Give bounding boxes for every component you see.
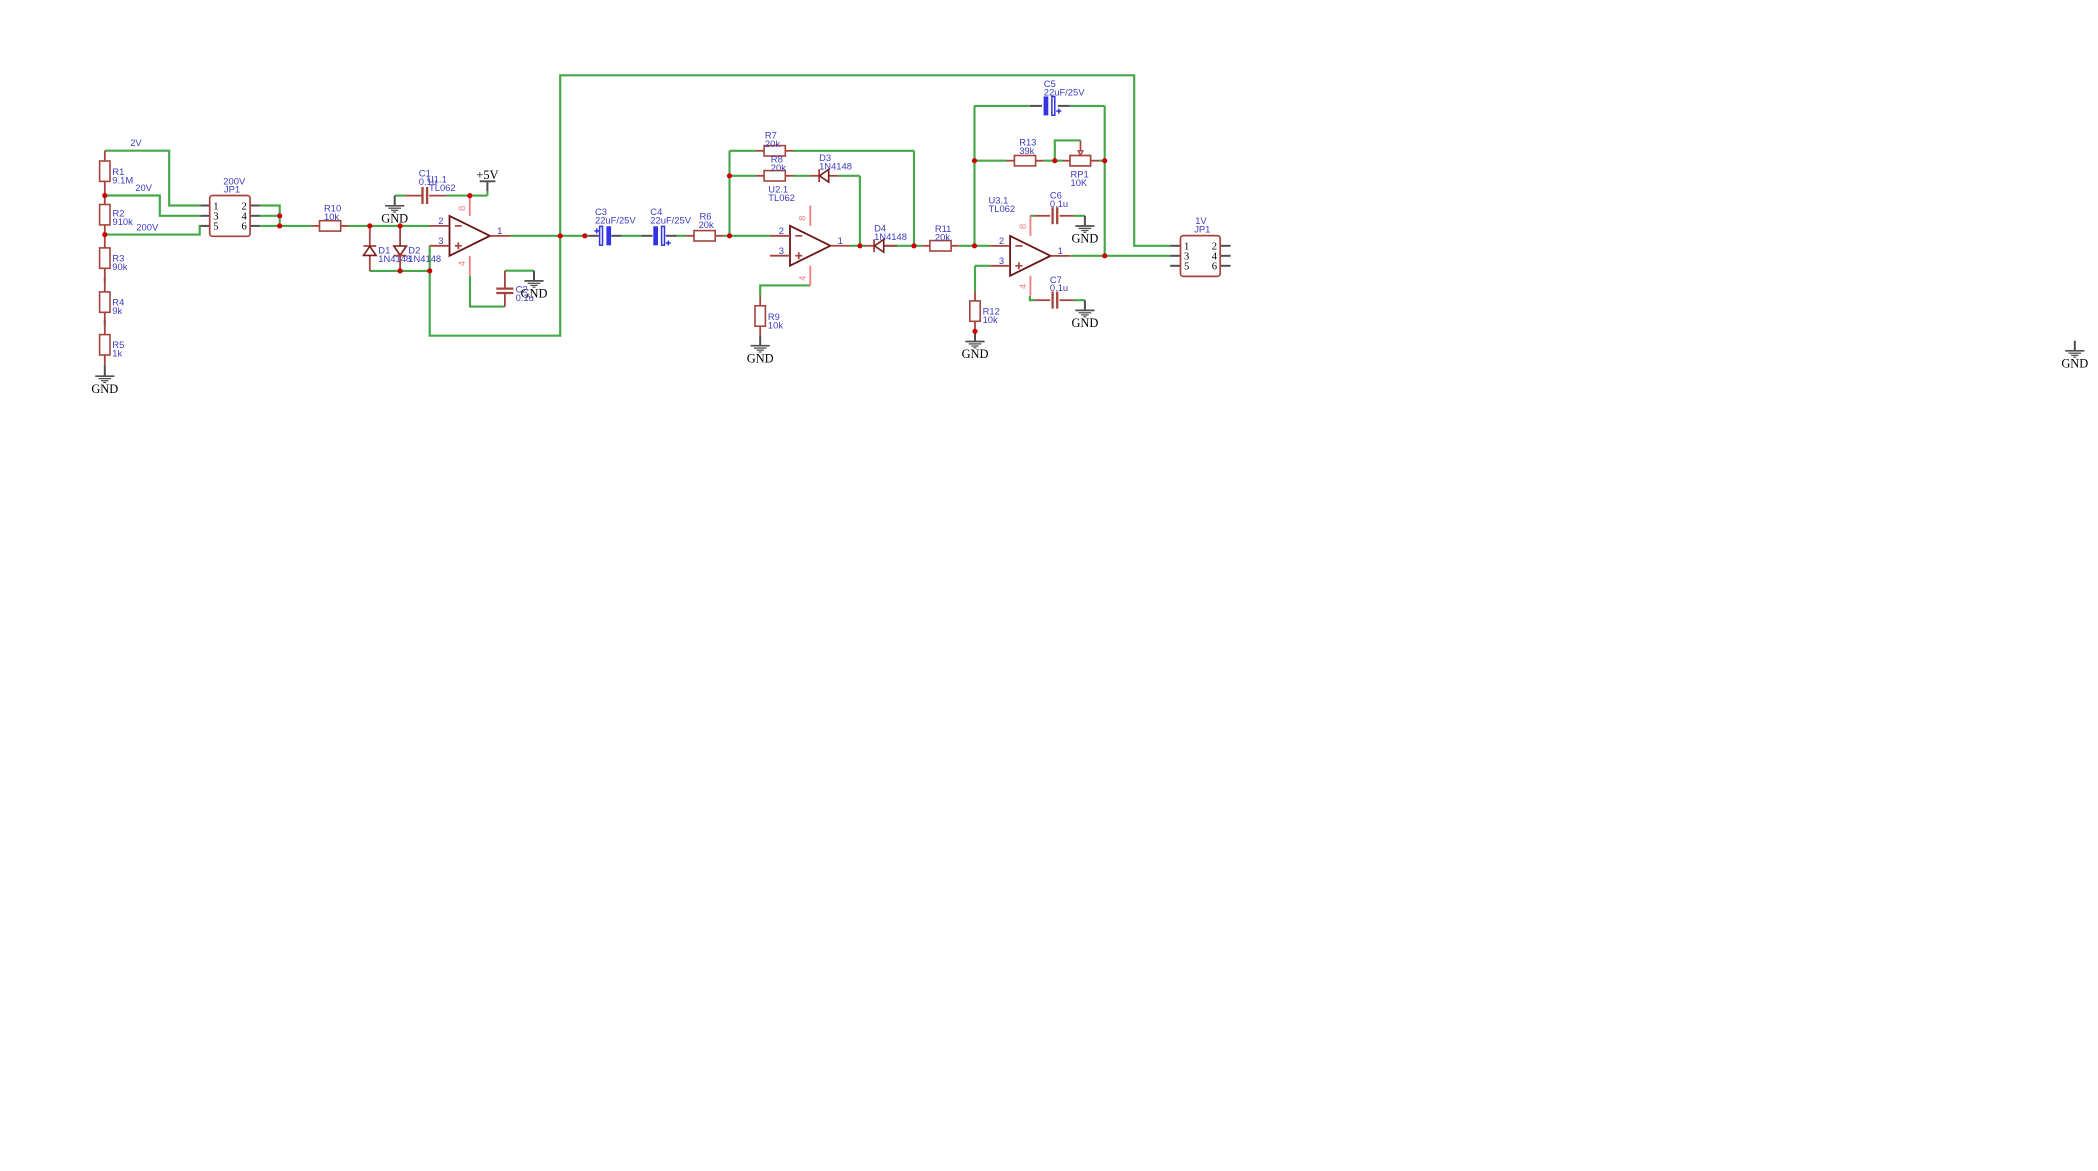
svg-text:200V: 200V [136,221,159,232]
svg-text:22uF/25V: 22uF/25V [1044,86,1085,97]
svg-text:GND: GND [381,212,408,226]
svg-text:GND: GND [962,347,989,361]
svg-text:0.1u: 0.1u [1050,198,1068,209]
svg-text:GND: GND [91,382,118,396]
svg-text:20V: 20V [135,182,152,193]
svg-text:9k: 9k [112,305,122,316]
svg-text:GND: GND [1071,316,1098,330]
svg-text:+5V: +5V [476,168,498,182]
svg-text:10k: 10k [324,211,339,222]
svg-text:1k: 1k [112,348,122,359]
svg-text:2: 2 [438,215,443,226]
svg-text:4: 4 [796,276,807,281]
svg-text:GND: GND [1071,232,1098,246]
svg-text:0.1u: 0.1u [1050,282,1068,293]
svg-text:TL062: TL062 [989,203,1016,214]
svg-text:2V: 2V [130,137,142,148]
svg-text:90k: 90k [112,261,127,272]
svg-text:0.1u: 0.1u [516,292,534,303]
svg-text:JP1: JP1 [1194,223,1210,234]
svg-text:20k: 20k [699,219,714,230]
svg-text:1: 1 [838,235,843,246]
svg-text:6: 6 [1212,261,1217,272]
svg-text:TL062: TL062 [768,192,795,203]
svg-text:3: 3 [999,255,1004,266]
svg-text:4: 4 [1017,284,1028,289]
svg-text:22uF/25V: 22uF/25V [650,215,691,226]
svg-text:1: 1 [1058,245,1063,256]
svg-text:10k: 10k [983,314,998,325]
svg-text:1: 1 [497,225,502,236]
svg-text:8: 8 [456,206,467,211]
svg-text:3: 3 [438,235,443,246]
svg-text:910k: 910k [113,216,134,227]
svg-text:1N4148: 1N4148 [874,231,907,242]
svg-text:TL062: TL062 [429,182,456,193]
svg-text:20k: 20k [765,138,780,149]
svg-text:2: 2 [779,225,784,236]
svg-text:22uF/25V: 22uF/25V [595,215,636,226]
svg-text:8: 8 [1017,224,1028,229]
svg-text:10k: 10k [768,319,783,330]
svg-text:2: 2 [999,235,1004,246]
svg-text:1N4148: 1N4148 [378,253,411,264]
svg-text:4: 4 [456,261,467,266]
svg-text:3: 3 [779,245,784,256]
svg-text:10K: 10K [1071,177,1088,188]
svg-text:8: 8 [796,216,807,221]
svg-text:9.1M: 9.1M [112,174,133,185]
svg-text:GND: GND [2061,357,2088,371]
svg-text:GND: GND [747,351,774,365]
svg-text:JP1: JP1 [224,184,240,195]
svg-text:39k: 39k [1019,145,1034,156]
svg-text:20k: 20k [771,162,786,173]
svg-text:1N4148: 1N4148 [408,253,441,264]
svg-text:6: 6 [242,222,247,233]
svg-text:5: 5 [213,222,218,233]
svg-text:20k: 20k [935,231,950,242]
svg-text:5: 5 [1184,261,1189,272]
svg-text:1N4148: 1N4148 [819,160,852,171]
